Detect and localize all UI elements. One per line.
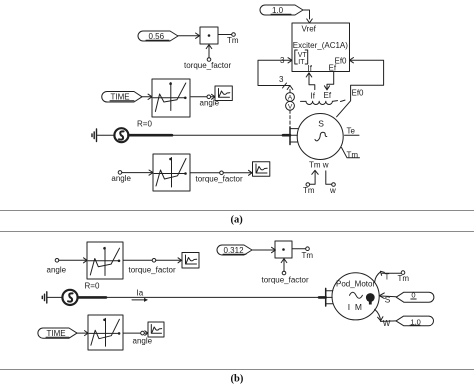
nonlinear transfer block U1: [152, 79, 190, 117]
machine terminal bus: [290, 127, 298, 144]
wire Ef (field voltage from exciter): [324, 72, 333, 90]
nonlinear transfer block U3: [153, 154, 190, 191]
voltmeter V: [286, 101, 295, 110]
node Tm (machine torque input): [303, 170, 318, 195]
svg-text:VT: VT: [298, 52, 308, 59]
svg-text:Ia: Ia: [137, 288, 144, 297]
svg-text:1.0: 1.0: [272, 6, 284, 15]
exciter block U2 Exciter_(AC1A): [292, 23, 350, 73]
scope block: [253, 162, 270, 177]
wire (thick): [78, 296, 106, 299]
wire If (field current into exciter): [306, 73, 315, 90]
node angle: [111, 171, 131, 183]
node torque_factor: [129, 259, 176, 275]
svg-text:torque_factor: torque_factor: [129, 266, 176, 275]
ammeter A: [286, 90, 295, 102]
svg-text:Ef0: Ef0: [335, 57, 348, 66]
svg-text:Ef: Ef: [324, 91, 332, 100]
svg-text:A: A: [288, 95, 293, 102]
constant 0.312: [217, 245, 252, 255]
svg-text:(b): (b): [231, 374, 244, 385]
wire: [190, 172, 220, 174]
svg-text:Ef: Ef: [329, 64, 337, 73]
nonlinear transfer block U5: [88, 315, 123, 350]
svg-text:w: w: [322, 161, 329, 170]
svg-text:0.312: 0.312: [224, 246, 245, 255]
constant 1.0: [396, 316, 434, 326]
svg-text:torque_factor: torque_factor: [184, 61, 231, 70]
wire: [303, 10, 310, 19]
node Tm: [398, 271, 410, 283]
wire: [292, 248, 306, 250]
node Tm: [302, 247, 314, 260]
wire: [178, 35, 199, 37]
svg-text:angle: angle: [111, 174, 131, 183]
svg-text:angle: angle: [133, 337, 153, 346]
svg-text:IT: IT: [298, 59, 305, 66]
input S (slip): [379, 293, 396, 305]
motor terminal bus: [326, 288, 333, 306]
wire: [218, 34, 232, 36]
svg-text:0.56: 0.56: [149, 32, 165, 41]
wire: [252, 249, 275, 251]
wire: [156, 259, 181, 261]
wire: [97, 134, 114, 136]
svg-text:torque_factor: torque_factor: [196, 175, 243, 184]
wire: [191, 96, 207, 98]
wire: [122, 172, 153, 174]
constant 0.56: [138, 31, 178, 41]
svg-text:Pod_Motor: Pod_Motor: [336, 279, 375, 288]
node angle: [47, 259, 67, 275]
divider line: [0, 369, 474, 371]
node angle: [200, 95, 220, 108]
synchronous machine G1: [297, 114, 343, 160]
source V2: [62, 290, 77, 305]
svg-text:TIME: TIME: [111, 93, 130, 102]
output flag Te: [345, 126, 360, 135]
svg-text:Tm: Tm: [302, 251, 314, 260]
svg-text:angle: angle: [200, 99, 220, 108]
divider line: [0, 231, 474, 233]
svg-text:Ef0: Ef0: [352, 89, 365, 98]
constant TIME: [102, 92, 142, 103]
svg-text:0: 0: [411, 291, 415, 300]
svg-text:Exciter_(AC1A): Exciter_(AC1A): [293, 41, 348, 50]
svg-text:Tm: Tm: [303, 186, 315, 195]
svg-text:3: 3: [280, 56, 285, 65]
scope block: [182, 253, 199, 269]
svg-text:Te: Te: [347, 126, 356, 135]
wire: [144, 332, 147, 334]
svg-text:If: If: [308, 64, 313, 73]
wire: [77, 332, 88, 334]
svg-text:R=0: R=0: [137, 120, 152, 129]
input T (torque): [375, 271, 402, 282]
wire (3-phase input to exciter): [258, 56, 293, 90]
svg-text:TIME: TIME: [47, 329, 66, 338]
node torque_factor: [196, 171, 243, 184]
node angle: [133, 331, 153, 345]
wire Ef0 (exciter feedback): [337, 58, 384, 117]
wire: [142, 96, 152, 98]
nonlinear transfer block U4: [87, 242, 123, 279]
input W (speed): [375, 309, 396, 328]
scope block: [148, 322, 164, 337]
constant 1.0: [260, 5, 303, 15]
multiplier block: [200, 27, 218, 44]
wire: [123, 259, 152, 261]
output flag Tm: [342, 148, 360, 160]
svg-text:Tm: Tm: [398, 274, 410, 283]
svg-text:If: If: [311, 91, 316, 100]
svg-text:Tm: Tm: [309, 161, 321, 170]
svg-text:torque_factor: torque_factor: [262, 276, 309, 285]
svg-text:I M: I M: [348, 302, 363, 312]
current label Ia: [132, 288, 148, 302]
ground: [42, 292, 47, 303]
constant 0: [396, 291, 434, 303]
svg-text:Tm: Tm: [347, 150, 359, 159]
divider line: [0, 210, 474, 212]
svg-text:Vref: Vref: [302, 25, 317, 34]
node torque_factor input: [184, 45, 231, 70]
node Tm: [227, 33, 239, 45]
svg-text:S: S: [318, 119, 324, 129]
scope block: [215, 86, 232, 101]
svg-text:W: W: [383, 319, 391, 328]
wire: [106, 296, 326, 298]
source V1: [114, 128, 128, 142]
svg-text:R=0: R=0: [85, 282, 100, 291]
wire: [223, 172, 251, 174]
field winding coil: [301, 91, 346, 105]
wire (thick): [129, 134, 173, 137]
wire: [123, 332, 141, 334]
constant TIME (b): [38, 328, 77, 338]
wire (dashed measurement link): [289, 110, 291, 127]
wire: [47, 296, 62, 298]
wire: [211, 96, 215, 98]
svg-text:3: 3: [279, 75, 284, 84]
wire: [59, 259, 87, 261]
svg-text:(a): (a): [231, 215, 244, 226]
induction motor M1 Pod_Motor: [332, 273, 379, 320]
svg-text:Tm: Tm: [227, 36, 239, 45]
ground: [92, 129, 97, 142]
node w (speed output): [326, 171, 336, 195]
svg-text:V: V: [288, 103, 293, 110]
svg-text:w: w: [329, 186, 336, 195]
multiplier block: [275, 241, 292, 258]
svg-text:angle: angle: [47, 266, 67, 275]
wire: [172, 134, 290, 136]
node torque_factor input: [262, 259, 309, 285]
